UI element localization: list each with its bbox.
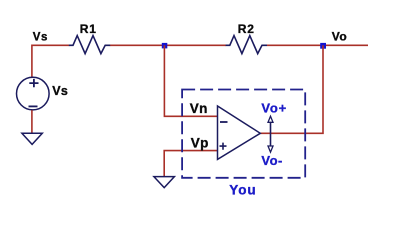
op-amp U1 triangle [218,106,261,159]
ground (below source) [22,133,42,144]
node 1 junction square [162,43,168,49]
wire: from R2 to Vo and right end [267,44,368,46]
wire: Vo down to op-amp output [260,45,323,133]
svg-text:Vo+: Vo+ [261,100,287,115]
svg-text:Vs: Vs [33,32,48,44]
ground (below Vp wire) [154,177,175,188]
plus sign inside source [29,79,38,87]
wire: source bottom to ground [31,110,33,133]
svg-text:Vp: Vp [191,135,209,150]
svg-text:Vo: Vo [332,29,347,43]
Vo+ up arrow [270,118,272,134]
svg-text:Vn: Vn [190,101,208,116]
op-amp plus input marker [220,143,227,150]
wire: Vs source vertical drop from rail [31,45,33,78]
op-amp minus input marker [220,121,228,123]
dashed boundary box "You" [182,90,305,178]
resistor R1 [69,36,110,54]
svg-text:R2: R2 [238,22,255,36]
resistor R2 [226,36,267,54]
node Vo junction square [320,43,326,49]
svg-text:You: You [229,182,257,197]
svg-text:Vo-: Vo- [261,153,282,168]
voltage source V1 circle [17,77,50,110]
minus sign inside source [29,105,38,107]
svg-text:R1: R1 [80,22,97,36]
wire: top rail from Vs to R1 [32,44,70,46]
svg-text:Vs: Vs [52,84,68,98]
Vo- down arrow [270,133,272,151]
wire: Vp from ground riser to op-amp [164,151,217,177]
wire: node 1 down to Vn [164,45,217,116]
wire: between R1 and R2 through node 1 [110,44,226,46]
